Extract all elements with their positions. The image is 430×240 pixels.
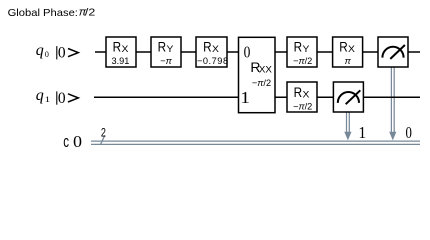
svg-text:−π: −π [160, 56, 172, 66]
svg-text:0: 0 [45, 50, 49, 59]
svg-text:−0.798: −0.798 [197, 56, 229, 66]
global phase label [8, 7, 96, 19]
svg-text:R: R [203, 39, 211, 55]
svg-text:R: R [158, 39, 166, 55]
gate RX(-pi/2) on q1 [287, 82, 317, 112]
svg-text:0: 0 [58, 44, 66, 61]
gate RY(-pi/2) [287, 37, 317, 67]
gate RY(-pi) [151, 37, 181, 67]
svg-text:π: π [345, 56, 352, 66]
svg-text:R: R [294, 84, 302, 100]
svg-text:X: X [302, 90, 309, 100]
qubit label q1 [36, 87, 79, 107]
svg-text:−π/2: −π/2 [252, 78, 271, 88]
svg-text:0: 0 [406, 123, 413, 142]
wire q1 [94, 96, 420, 98]
svg-text:q: q [36, 87, 44, 104]
svg-text:1: 1 [45, 96, 51, 104]
svg-text:Y: Y [302, 45, 309, 55]
svg-text:1: 1 [358, 122, 366, 142]
svg-text:X: X [212, 45, 219, 55]
measure arrow q0 to bit 0 [389, 67, 396, 140]
svg-text:0: 0 [73, 132, 82, 152]
svg-text:3.91: 3.91 [111, 56, 129, 66]
classical wire (double line) [91, 141, 420, 144]
svg-text:q: q [36, 42, 44, 59]
svg-text:1: 1 [240, 88, 250, 107]
svg-text:c: c [63, 133, 69, 152]
svg-text:2: 2 [101, 128, 106, 140]
gate RXX(-pi/2) two-qubit box [239, 37, 276, 112]
svg-text:X: X [348, 45, 355, 55]
svg-text:R: R [294, 39, 302, 55]
svg-text:0: 0 [58, 90, 66, 107]
svg-text:Global Phase:: Global Phase: [8, 7, 78, 18]
svg-text:R: R [113, 39, 121, 55]
svg-text:/2: /2 [85, 7, 95, 18]
gate RX(-0.798) [196, 37, 229, 67]
measure box q1 [333, 82, 363, 112]
gate RX(3.91) [106, 37, 136, 67]
svg-text:Y: Y [166, 45, 173, 55]
clbit label c 0 [63, 132, 82, 152]
gate RX(pi) [333, 37, 363, 67]
svg-text:−π/2: −π/2 [293, 101, 312, 111]
svg-text:R: R [339, 39, 347, 55]
measure box q0 [378, 37, 408, 67]
wire q0 [95, 51, 420, 53]
svg-text:X: X [121, 45, 128, 55]
svg-text:XX: XX [259, 64, 272, 74]
svg-text:−π/2: −π/2 [293, 56, 312, 66]
measure arrow q1 to bit 1 [344, 112, 351, 140]
classical bundle slash [100, 135, 105, 145]
qubit label q0 [36, 42, 79, 62]
